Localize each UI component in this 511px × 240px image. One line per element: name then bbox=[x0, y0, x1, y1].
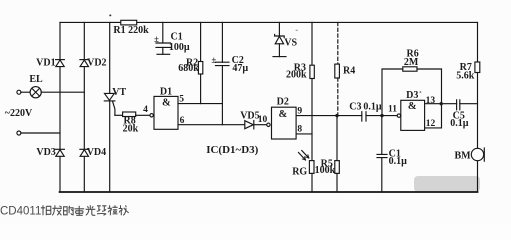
capacitor C1 100u bbox=[156, 22, 171, 54]
wire pin8 of D2 bbox=[297, 133, 312, 135]
svg-text:D1: D1 bbox=[160, 87, 172, 98]
svg-text:VD1: VD1 bbox=[36, 58, 55, 69]
svg-text:100k: 100k bbox=[315, 165, 336, 176]
diode VD3 bbox=[56, 149, 65, 156]
svg-text:C3: C3 bbox=[349, 101, 361, 112]
svg-text:0.1µ: 0.1µ bbox=[389, 156, 408, 167]
capacitor C1 0.1u (bottom) bbox=[377, 116, 387, 192]
label R5 100k bbox=[315, 158, 336, 176]
wire terminal lower to VD1 column bbox=[21, 132, 60, 134]
wire pin9 of D2 to D3 input bbox=[297, 115, 397, 117]
zener diode VS bbox=[275, 22, 285, 56]
op-amp gate D1 bbox=[154, 96, 178, 129]
pin 4 bubble D1 bbox=[150, 114, 153, 117]
wire VD2/VD4 column bbox=[83, 22, 85, 192]
diode VD5 bbox=[245, 121, 267, 129]
svg-text:5.6k: 5.6k bbox=[456, 70, 475, 81]
svg-text:680k: 680k bbox=[178, 63, 199, 74]
svg-text:47µ: 47µ bbox=[232, 63, 248, 74]
svg-text:~220V: ~220V bbox=[5, 108, 33, 119]
svg-text:R4: R4 bbox=[343, 66, 355, 77]
wire pin13 of D3 bbox=[425, 103, 457, 105]
label R6 2M bbox=[404, 48, 419, 68]
op-amp gate D3 bbox=[401, 100, 425, 130]
op-amp gate D2 bbox=[272, 107, 297, 139]
node AC terminal upper bbox=[17, 90, 21, 94]
resistor R5 bbox=[335, 116, 340, 192]
svg-text:R1 220k: R1 220k bbox=[113, 25, 149, 36]
svg-text:VD2: VD2 bbox=[87, 58, 106, 69]
pin 10 bubble D2 bbox=[267, 123, 270, 126]
svg-text:13: 13 bbox=[426, 96, 436, 106]
svg-text:0.1µ: 0.1µ bbox=[363, 101, 382, 112]
capacitor C5 bbox=[457, 100, 478, 110]
node AC terminal lower bbox=[17, 131, 21, 135]
svg-text:IC(D1~D3): IC(D1~D3) bbox=[206, 144, 258, 156]
svg-text:10: 10 bbox=[258, 115, 268, 125]
scan speck bbox=[420, 91, 422, 92]
svg-text:VD3: VD3 bbox=[36, 147, 55, 158]
svg-text:0.1µ: 0.1µ bbox=[450, 118, 469, 129]
resistor R2 bbox=[198, 22, 202, 103]
photoresistor RG bbox=[299, 151, 315, 193]
svg-text:8: 8 bbox=[297, 125, 302, 135]
svg-text:&: & bbox=[408, 101, 417, 112]
wire VD1/VD3 column bbox=[59, 22, 61, 192]
node junction R4/R5 bbox=[335, 114, 338, 117]
thyristor VT bbox=[104, 22, 115, 192]
diode VD4 bbox=[80, 149, 89, 156]
svg-text:&: & bbox=[162, 98, 171, 109]
svg-text:±: ± bbox=[211, 55, 216, 65]
node junction pin13/R6 bbox=[440, 102, 443, 105]
lamp EL bbox=[30, 87, 41, 98]
wire pin5 of D1 bbox=[178, 103, 222, 105]
svg-text:100µ: 100µ bbox=[169, 42, 190, 53]
svg-text:VT: VT bbox=[112, 87, 126, 98]
label C2 47u bbox=[211, 55, 248, 74]
diode VD1 bbox=[56, 60, 65, 67]
svg-text:20k: 20k bbox=[123, 124, 139, 135]
svg-text:RG: RG bbox=[292, 167, 307, 178]
svg-text:2M: 2M bbox=[404, 57, 419, 68]
svg-text:11: 11 bbox=[388, 105, 397, 115]
scan speck bbox=[109, 15, 111, 17]
capacitor C2 47u bbox=[216, 22, 230, 124]
label C3 0.1u bbox=[349, 101, 382, 112]
wire lamp to VD2 column bbox=[41, 91, 84, 93]
wire terminal to lamp bbox=[21, 91, 30, 93]
svg-text:4: 4 bbox=[143, 105, 148, 115]
svg-text:D3: D3 bbox=[406, 90, 418, 101]
diode VD2 bbox=[80, 60, 89, 67]
svg-text:D2: D2 bbox=[277, 97, 289, 108]
svg-text:±: ± bbox=[154, 34, 159, 44]
resistor R8 bbox=[115, 112, 150, 117]
wire right edge column bbox=[477, 22, 479, 192]
wire bottom rail bbox=[60, 191, 478, 193]
scan speck bbox=[296, 30, 298, 31]
capacitor C3 bbox=[362, 112, 366, 121]
svg-text:12: 12 bbox=[426, 119, 436, 129]
node junction C1/R6 bbox=[380, 114, 383, 117]
microphone BM bbox=[471, 148, 484, 161]
resistor R6 feedback loop bbox=[382, 67, 442, 128]
watermark blob bbox=[414, 176, 480, 192]
label C5 0.1u bbox=[450, 111, 469, 129]
resistor R4 (dashed branch) bbox=[335, 22, 340, 115]
svg-text:200k: 200k bbox=[286, 70, 307, 81]
label R3 200k bbox=[286, 63, 307, 81]
svg-text:BM: BM bbox=[454, 150, 471, 161]
ground bar VS bbox=[273, 56, 286, 58]
label R2 680k bbox=[178, 57, 199, 74]
resistor R7 bbox=[475, 62, 480, 73]
pin 11 bubble D3 bbox=[397, 114, 400, 117]
label R8 20k bbox=[123, 115, 139, 134]
resistor R1 bbox=[121, 20, 137, 25]
label R7 5.6k bbox=[456, 62, 475, 81]
wire top rail bbox=[60, 21, 478, 23]
ground bar C1 bbox=[157, 53, 170, 55]
svg-text:CD4011: CD4011 bbox=[0, 206, 41, 218]
label C1 100u bbox=[154, 32, 190, 53]
caption chinese glyph blocks bbox=[41, 205, 129, 215]
label C1 0.1u bbox=[389, 149, 408, 168]
svg-text:&: & bbox=[279, 109, 288, 120]
svg-text:VD5: VD5 bbox=[240, 111, 259, 122]
svg-text:EL: EL bbox=[29, 74, 43, 85]
svg-text:VS: VS bbox=[284, 38, 297, 49]
wire pin6 of D1 bbox=[178, 124, 245, 126]
svg-text:VD4: VD4 bbox=[87, 147, 106, 158]
resistor R3 bbox=[310, 22, 314, 160]
